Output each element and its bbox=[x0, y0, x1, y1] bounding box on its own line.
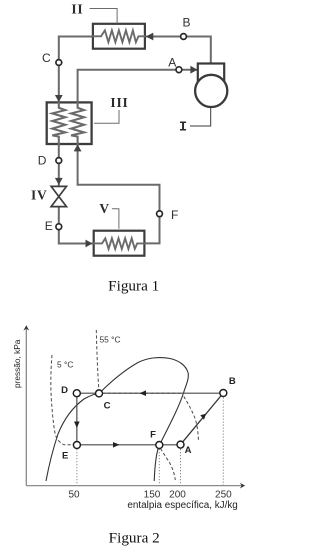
compressor I circle bbox=[195, 75, 227, 107]
callout line V bbox=[113, 209, 119, 229]
dotted vertical F-150 bbox=[158, 449, 160, 485]
svg-text:55 °C: 55 °C bbox=[100, 335, 121, 345]
svg-text:IV: IV bbox=[31, 188, 48, 203]
arrowhead above expansion valve (pointing down) bbox=[55, 178, 63, 185]
cycle arrow E-F (pointing right) bbox=[113, 442, 120, 448]
svg-text:C: C bbox=[42, 51, 51, 65]
IHX III right coil bbox=[71, 102, 84, 144]
node D bbox=[56, 158, 62, 164]
chart node C bbox=[96, 390, 103, 397]
node B bbox=[181, 34, 187, 40]
svg-text:250: 250 bbox=[215, 490, 232, 501]
callout line I bbox=[191, 107, 211, 126]
svg-text:E: E bbox=[45, 219, 53, 233]
IHX III box bbox=[47, 102, 92, 144]
svg-text:A: A bbox=[168, 55, 176, 69]
chart node D bbox=[73, 390, 80, 397]
svg-text:200: 200 bbox=[169, 490, 186, 501]
svg-text:150: 150 bbox=[144, 490, 161, 501]
cycle line E to A bbox=[77, 444, 181, 446]
cycle line A to B bbox=[181, 393, 224, 445]
dotted vertical B-250 bbox=[222, 398, 224, 488]
y axis bbox=[25, 328, 27, 486]
svg-text:50: 50 bbox=[68, 490, 80, 501]
cycle line D to E bbox=[76, 393, 78, 445]
svg-text:II: II bbox=[71, 2, 83, 17]
svg-text:F: F bbox=[150, 429, 156, 440]
svg-text:III: III bbox=[110, 95, 128, 110]
svg-text:pressão, kPa: pressão, kPa bbox=[12, 339, 22, 388]
wire evaporator outlet up through F to IHX bbox=[78, 144, 160, 243]
isotherm 55C lower dashed bbox=[184, 397, 199, 441]
chart node E bbox=[73, 442, 80, 449]
isotherm 5C upper dashed bbox=[51, 355, 74, 445]
svg-text:Figura 1: Figura 1 bbox=[108, 278, 159, 295]
svg-text:E: E bbox=[62, 450, 68, 461]
svg-text:B: B bbox=[229, 376, 236, 387]
wire liquid line D to valve bbox=[58, 144, 60, 186]
arrowhead into evaporator V (pointing right) bbox=[86, 240, 93, 248]
expansion valve IV bbox=[51, 186, 66, 206]
node F bbox=[157, 211, 163, 217]
cycle arrow A-B (pointing up-right) bbox=[200, 414, 206, 420]
compressor I rect bbox=[198, 64, 224, 84]
isotherm 5C lower dashed bbox=[161, 449, 176, 481]
cycle arrow D-E (pointing down) bbox=[74, 422, 80, 429]
svg-text:D: D bbox=[61, 385, 68, 396]
arrowhead into compressor I (pointing right) bbox=[190, 66, 197, 74]
svg-text:I: I bbox=[179, 121, 187, 136]
node C bbox=[56, 60, 62, 66]
saturation dome bbox=[46, 358, 188, 481]
svg-text:C: C bbox=[104, 400, 111, 411]
wire suction line y=69.7 bbox=[78, 70, 196, 103]
IHX III left coil bbox=[52, 102, 65, 144]
isotherm 55C upper dashed bbox=[96, 330, 99, 391]
wire valve to evaporator V bbox=[59, 207, 92, 244]
node E bbox=[56, 224, 62, 230]
cycle arrow B-C (pointing left) bbox=[140, 390, 147, 396]
isotherm 55C horizontal dashed bbox=[102, 392, 183, 394]
svg-text:B: B bbox=[182, 15, 190, 29]
chart node F bbox=[156, 442, 163, 449]
chart node B bbox=[220, 390, 227, 397]
svg-text:F: F bbox=[171, 208, 178, 222]
cycle line B to D bbox=[77, 392, 224, 394]
chart node A bbox=[177, 441, 184, 448]
condenser II box bbox=[93, 24, 145, 49]
evaporator V zigzag bbox=[94, 238, 145, 249]
x axis bbox=[26, 485, 242, 487]
wire top line from compressor to condenser II bbox=[146, 37, 211, 64]
svg-text:Figura 2: Figura 2 bbox=[109, 530, 160, 547]
svg-text:entalpia específica, kJ/kg: entalpia específica, kJ/kg bbox=[127, 500, 237, 511]
callout line III bbox=[95, 111, 120, 124]
dotted vertical A-200 bbox=[180, 449, 182, 485]
condenser II zigzag bbox=[93, 30, 145, 42]
svg-text:D: D bbox=[38, 154, 47, 168]
arrowhead into IHX III top (pointing down) bbox=[55, 95, 63, 102]
evaporator V box bbox=[94, 231, 145, 256]
node A bbox=[176, 67, 182, 73]
dotted vertical E-50 bbox=[76, 449, 78, 485]
wire top-left segment to left vertical bbox=[59, 37, 93, 103]
callout line II bbox=[90, 9, 117, 24]
svg-text:A: A bbox=[185, 445, 192, 456]
arrowhead into IHX III bottom (pointing up) bbox=[74, 144, 82, 151]
svg-text:5 °C: 5 °C bbox=[57, 360, 73, 370]
svg-text:V: V bbox=[99, 201, 110, 216]
arrowhead into condenser II (pointing left) bbox=[146, 33, 154, 41]
